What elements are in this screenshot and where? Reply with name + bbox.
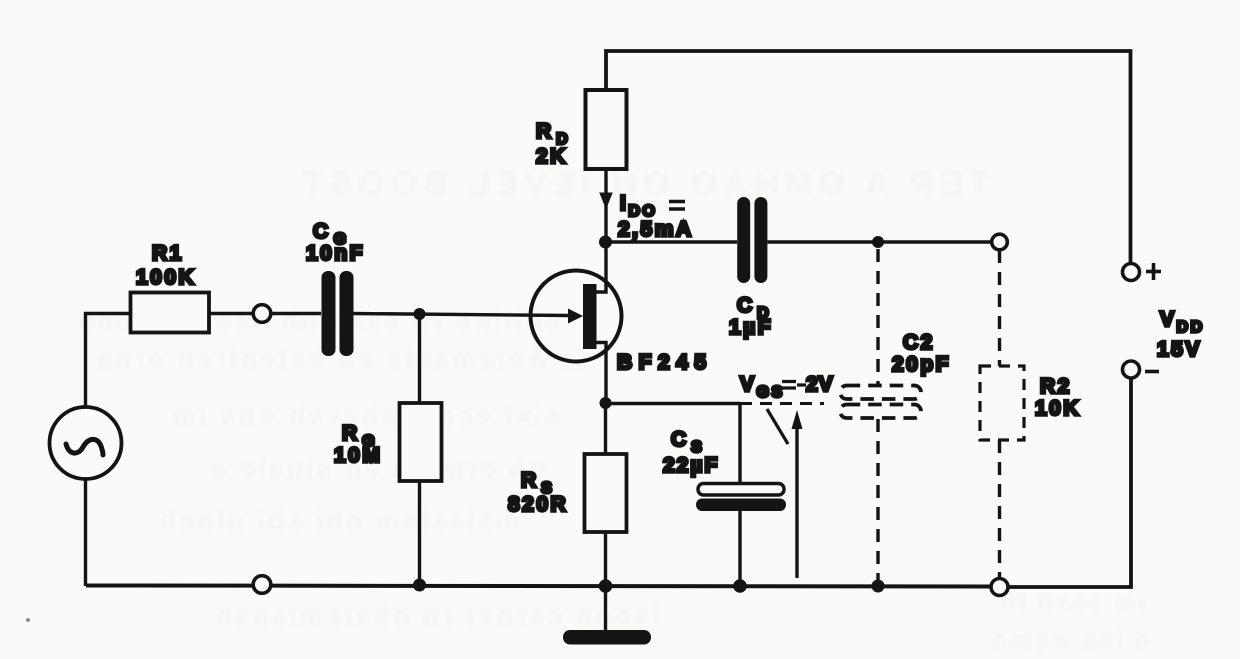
node RG bottom junction dot: [413, 579, 426, 592]
wire RS lower lead: [604, 532, 607, 586]
transistor Q1 BF245 circle: [531, 271, 622, 362]
svg-text:TER A OMHAO OH IEVEL BOOST: TER A OMHAO OH IEVEL BOOST: [297, 165, 990, 203]
svg-text:10nF: 10nF: [306, 242, 365, 265]
svg-text:msiaslam obi sbi uloeb: msiaslam obi sbi uloeb: [157, 506, 520, 536]
wire RS upper lead: [604, 403, 607, 454]
battery terminal plus circle: [1123, 264, 1140, 281]
capacitor C2 dashed plates: [840, 386, 921, 419]
capacitor CS top plate: [698, 484, 784, 496]
svg-text:22µF: 22µF: [663, 454, 719, 477]
capacitor CS bottom plate: [696, 499, 786, 512]
resistor RS: [585, 454, 627, 532]
svg-text:CS: CS: [671, 428, 704, 456]
input terminal top circle: [253, 305, 271, 323]
svg-text:o isa wgmo: o isa wgmo: [989, 627, 1150, 654]
svg-text:RD: RD: [536, 120, 570, 148]
svg-text:sixt ecom obevsb ohs im: sixt ecom obevsb ohs im: [170, 401, 560, 431]
input terminal bottom circle: [253, 576, 271, 594]
gate arrowhead: [568, 309, 583, 324]
wire dashed R2 upper lead: [998, 250, 1001, 366]
wire bottom rail: [86, 586, 991, 587]
node C2 top junction dot: [872, 236, 884, 248]
svg-text:VGS: VGS: [740, 373, 785, 401]
current arrow IDO: [600, 193, 612, 208]
paper speck: [26, 618, 30, 622]
label RG 10M: [334, 422, 382, 467]
wire VDD minus down to bottom rail: [1008, 378, 1131, 587]
wire RG lower lead: [418, 481, 421, 585]
wire RD bottom to drain node: [604, 169, 607, 242]
battery terminal minus circle: [1123, 361, 1140, 378]
node drain junction dot: [599, 236, 612, 249]
label CD 1uF: [729, 294, 773, 339]
svg-text:2V: 2V: [806, 373, 834, 396]
wire dashed R2 lower lead: [998, 440, 1001, 578]
resistor R1: [131, 293, 210, 333]
svg-text:2,5mA: 2,5mA: [618, 218, 694, 241]
label CS 22uF: [663, 428, 719, 477]
label VDD 15V: [1157, 308, 1205, 361]
wire CS upper lead: [738, 404, 741, 485]
node gate junction dot: [414, 308, 426, 320]
label RD 2K: [536, 120, 570, 168]
VGS pointer diagonal stroke: [767, 409, 788, 444]
svg-text:R2: R2: [1040, 375, 1072, 398]
wire source top to input line: [86, 314, 132, 408]
node source junction dot: [600, 397, 612, 409]
signal source circle: [50, 407, 122, 479]
capacitor CG plates: [322, 271, 354, 356]
ground bar: [563, 630, 651, 645]
source lead: [596, 343, 606, 404]
svg-text:R1: R1: [152, 242, 184, 265]
label CG 10nF: [306, 220, 365, 265]
label RS 820R: [508, 469, 568, 516]
transistor channel bar: [583, 284, 597, 349]
svg-text:100K: 100K: [136, 266, 196, 289]
svg-text:820R: 820R: [508, 493, 568, 516]
wire input circle to CG: [271, 312, 321, 315]
wire CD to output terminal: [768, 240, 993, 243]
label R2 10K: [1035, 375, 1081, 420]
svg-text:im sasb ln: im sasb ln: [998, 589, 1145, 616]
label IDO = 2,5 mA: [618, 192, 694, 241]
capacitor CD plates: [737, 197, 767, 283]
wire dashed C2 lower lead: [876, 419, 879, 586]
label plus sign: [1146, 263, 1161, 280]
svg-text:10M: 10M: [334, 444, 382, 467]
svg-text:15V: 15V: [1157, 338, 1202, 361]
ground stub wire: [604, 586, 607, 631]
label C2 20pF: [892, 331, 951, 376]
wire CS lower lead: [738, 511, 741, 586]
svg-text:10K: 10K: [1035, 397, 1081, 420]
output terminal top circle: [992, 234, 1008, 250]
wire RG upper lead: [418, 314, 421, 403]
wire dashed C2 upper lead: [876, 249, 879, 385]
svg-text:lsoob carnet rn obsiemisasb: lsoob carnet rn obsiemisasb: [213, 601, 660, 631]
sine wave inside source: [66, 439, 103, 455]
wire CG to gate: [354, 314, 570, 316]
resistor RG: [400, 403, 442, 481]
wire dashed VGS segment: [740, 402, 824, 405]
wire drain node to CD: [606, 240, 738, 243]
node CS bottom junction dot: [733, 579, 747, 593]
svg-text:is Aoiemaate eb beteotren orne: is Aoiemaate eb beteotren orne: [94, 344, 585, 374]
wire source bottom to rail: [84, 479, 87, 586]
wire R1 to input terminal circle: [209, 312, 253, 315]
node RS bottom junction dot: [599, 579, 613, 593]
wire source node to CS: [606, 402, 741, 405]
svg-text:BF245: BF245: [617, 351, 713, 374]
node C2 bottom junction dot: [872, 580, 885, 593]
svg-text:VDD: VDD: [1160, 308, 1205, 336]
svg-text:C2: C2: [903, 331, 935, 354]
label minus sign: [1145, 370, 1159, 374]
resistor RD: [586, 90, 627, 169]
svg-text:1µF: 1µF: [729, 316, 773, 339]
svg-text:2K: 2K: [536, 145, 568, 168]
svg-text:20pF: 20pF: [892, 353, 951, 376]
wire top rail from RD top to VDD+ corner: [606, 51, 1131, 263]
output terminal bottom circle: [991, 579, 1008, 596]
label VGS = -2V: [740, 373, 834, 401]
drain lead: [596, 242, 606, 292]
VGS arrow vertical: [792, 410, 803, 578]
resistor R2 dashed box: [980, 366, 1024, 440]
label R1 100K: [136, 242, 196, 289]
